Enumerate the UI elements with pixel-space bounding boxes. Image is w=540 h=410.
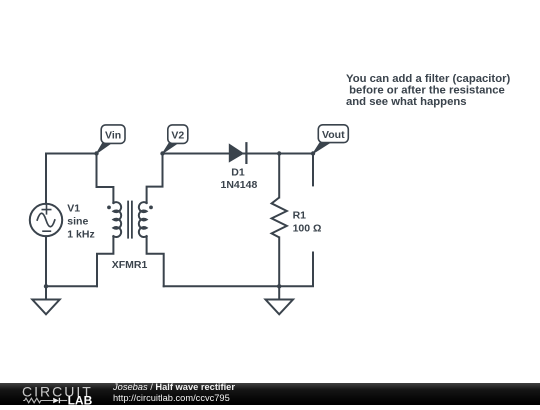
wire Vout stub [312,154,314,186]
svg-text:before or after the resistance: before or after the resistance [346,84,505,96]
svg-text:1N4148: 1N4148 [221,179,258,191]
svg-text:Vout: Vout [322,129,345,141]
svg-text:V2: V2 [171,129,184,141]
node V2 [160,151,164,155]
svg-text:XFMR1: XFMR1 [112,259,148,271]
node R1-ground junction [277,284,281,288]
flag Vin [97,125,126,154]
wire top-left horizontal (V1 to Vin node) [46,153,97,155]
transformer XFMR1 primary winding [113,202,121,237]
CircuitLab logo [0,383,100,405]
wire V2 node to secondary top [147,154,163,204]
node diode-R1 junction [277,151,281,155]
diode D1 [229,143,247,163]
node V1-ground junction [44,284,48,288]
svg-text:1 kHz: 1 kHz [67,229,94,241]
transformer polarity dot primary [107,206,111,210]
svg-text:D1: D1 [231,166,245,178]
wire primary bottom return [97,236,113,286]
svg-text:You can add a filter (capacito: You can add a filter (capacitor) [346,73,510,85]
node Vout [311,151,315,155]
wire secondary bottom return [147,236,164,286]
annotation note [346,73,510,108]
transformer polarity dot secondary [149,206,153,210]
flag V2 [163,125,188,154]
svg-text:V1: V1 [67,202,80,214]
svg-text:and see what happens: and see what happens [346,96,467,108]
wire V1 bottom vertical [45,236,47,286]
svg-text:LAB: LAB [68,394,93,406]
svg-text:sine: sine [67,215,88,227]
wire top V2 to Vout [163,153,314,155]
wire bottom-left horizontal [46,285,97,287]
wire bottom-right with Vout lower branch [164,253,313,287]
footer bar [0,383,540,405]
node Vin [94,151,98,155]
voltage source V1 [30,204,62,236]
ground GND2 [266,286,294,314]
svg-text:Vin: Vin [105,129,121,141]
transformer core [128,202,132,238]
wire V1 top vertical [45,154,47,204]
ground GND1 [32,286,59,314]
svg-text:100 Ω: 100 Ω [293,222,322,234]
flag Vout [313,125,348,154]
svg-text:R1: R1 [293,209,307,221]
resistor R1 [272,154,287,287]
footer url [113,382,235,404]
transformer XFMR1 secondary winding [139,202,147,237]
wire Vin node to primary top [97,154,114,204]
